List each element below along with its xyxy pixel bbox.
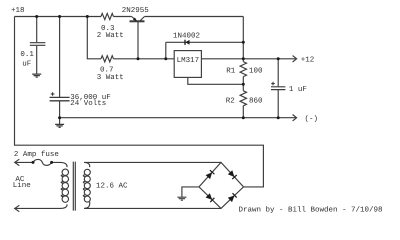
svg-text:2 Watt: 2 Watt [97, 31, 124, 40]
svg-text:R1: R1 [226, 67, 236, 75]
svg-text:24 Volts: 24 Volts [70, 99, 106, 108]
svg-text:+18: +18 [11, 6, 25, 15]
svg-text:2N2955: 2N2955 [122, 6, 150, 15]
svg-text:(-): (-) [305, 114, 319, 123]
svg-text:0.7: 0.7 [100, 65, 114, 74]
svg-text:860: 860 [249, 97, 263, 106]
svg-text:100: 100 [249, 67, 263, 76]
svg-text:+12: +12 [301, 56, 315, 65]
svg-text:0.1: 0.1 [20, 50, 34, 59]
svg-text:Drawn by - Bill Bowden - 7/10/: Drawn by - Bill Bowden - 7/10/98 [239, 206, 383, 215]
svg-text:R2: R2 [226, 96, 235, 105]
svg-text:uF: uF [22, 61, 31, 69]
svg-text:LM317: LM317 [177, 56, 200, 65]
svg-text:1 uF: 1 uF [289, 86, 307, 94]
svg-text:Line: Line [13, 181, 31, 190]
svg-text:2 Amp fuse: 2 Amp fuse [14, 150, 59, 159]
svg-text:1N4002: 1N4002 [173, 31, 200, 40]
svg-text:3 Watt: 3 Watt [97, 73, 124, 82]
svg-text:12.6 AC: 12.6 AC [96, 181, 128, 190]
